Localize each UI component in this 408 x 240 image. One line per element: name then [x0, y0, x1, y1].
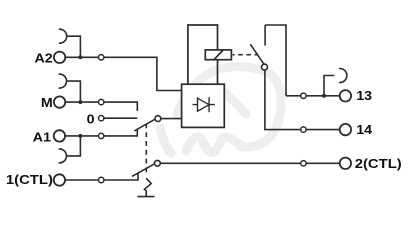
hook contact above A2	[59, 29, 67, 43]
plug point circle 1(CTL) line	[99, 177, 104, 182]
wire A1 to plug point	[65, 135, 99, 137]
terminal 14 circle	[340, 124, 351, 135]
junction A1	[78, 134, 82, 138]
svg-text:13: 13	[356, 89, 372, 103]
plug point circle M line	[99, 99, 104, 104]
wire 1(CTL) to plug point	[65, 179, 99, 181]
relay contact lever	[250, 44, 263, 64]
plug point circle A2 line	[99, 55, 104, 60]
relay coil K1 diagonal	[214, 50, 223, 60]
terminal 1(CTL) circle	[54, 174, 65, 185]
terminal A2 circle	[54, 52, 65, 63]
wire hook A2 to junction	[67, 36, 81, 57]
terminal 13 circle	[340, 90, 351, 101]
junction A2	[78, 55, 82, 59]
plug point circle 13 line	[301, 93, 306, 98]
plug point circle 14 line	[301, 127, 306, 132]
selector switch S1 upper lever	[134, 119, 155, 131]
wire A2 line to input box	[104, 57, 182, 90]
svg-text:M: M	[41, 96, 53, 110]
coil actuating dashed link	[233, 54, 259, 56]
terminal M circle	[54, 96, 65, 107]
svg-text:1(CTL): 1(CTL)	[6, 173, 53, 187]
diode V1 triangle	[198, 98, 210, 111]
diode V1 line	[193, 104, 215, 106]
hook contact above M	[59, 74, 67, 88]
wire 0 line to selector fixed contact	[104, 117, 138, 119]
mechanical link dashed line	[145, 123, 147, 175]
wire hook A1 to junction	[66, 136, 80, 156]
wire contact common to 14 line	[265, 70, 301, 130]
svg-text:A1: A1	[33, 130, 52, 144]
wire 2(CTL) plug point to terminal	[306, 162, 340, 164]
relay contact lever plug circle	[262, 64, 268, 70]
plug point circle 0 line	[99, 116, 104, 121]
svg-text:A2: A2	[34, 51, 52, 65]
plug point circle 2(CTL) line	[301, 161, 306, 166]
watermark swirl	[160, 66, 281, 153]
hook contact at 13	[339, 69, 347, 83]
wire 13 junction to hook	[324, 76, 334, 96]
wire hook M to junction	[66, 81, 80, 102]
svg-text:2(CTL): 2(CTL)	[355, 157, 402, 171]
lower switch S2 lever	[132, 164, 155, 177]
terminal 2(CTL) circle	[340, 158, 351, 169]
actuator base bar	[137, 196, 154, 198]
diode V1 cathode bar	[208, 97, 210, 112]
input box U1	[182, 84, 225, 127]
junction 13	[322, 94, 326, 98]
junction M	[78, 100, 82, 104]
relay coil K1	[205, 50, 231, 60]
svg-text:0: 0	[87, 112, 95, 126]
relay contact fixed stub	[264, 25, 266, 46]
selector switch S1 upper lever plug circle	[155, 116, 161, 122]
manual actuator spring	[144, 178, 151, 196]
terminal A1 circle	[54, 130, 65, 141]
wire contact top loop to 13 line	[265, 25, 286, 96]
lower switch S2 lever plug circle	[155, 160, 161, 166]
coil frame	[188, 25, 218, 84]
wire lower switch to 2(CTL) plug point	[160, 162, 301, 164]
wire 14 plug point to terminal	[306, 129, 340, 131]
wire selector common to input box	[161, 118, 182, 120]
wire A2 to plug point	[65, 56, 98, 58]
svg-text:14: 14	[356, 123, 372, 137]
wire 1(CTL) line to lower switch pivot stub	[104, 173, 138, 180]
wire A1 line to selector pivot stub	[104, 130, 138, 136]
wire 13 line	[286, 95, 340, 97]
wire M line to selector fixed contact stub	[104, 102, 138, 111]
wire M to plug point	[65, 101, 98, 103]
hook contact below A1	[59, 149, 67, 163]
plug point circle A1 line	[99, 133, 104, 138]
